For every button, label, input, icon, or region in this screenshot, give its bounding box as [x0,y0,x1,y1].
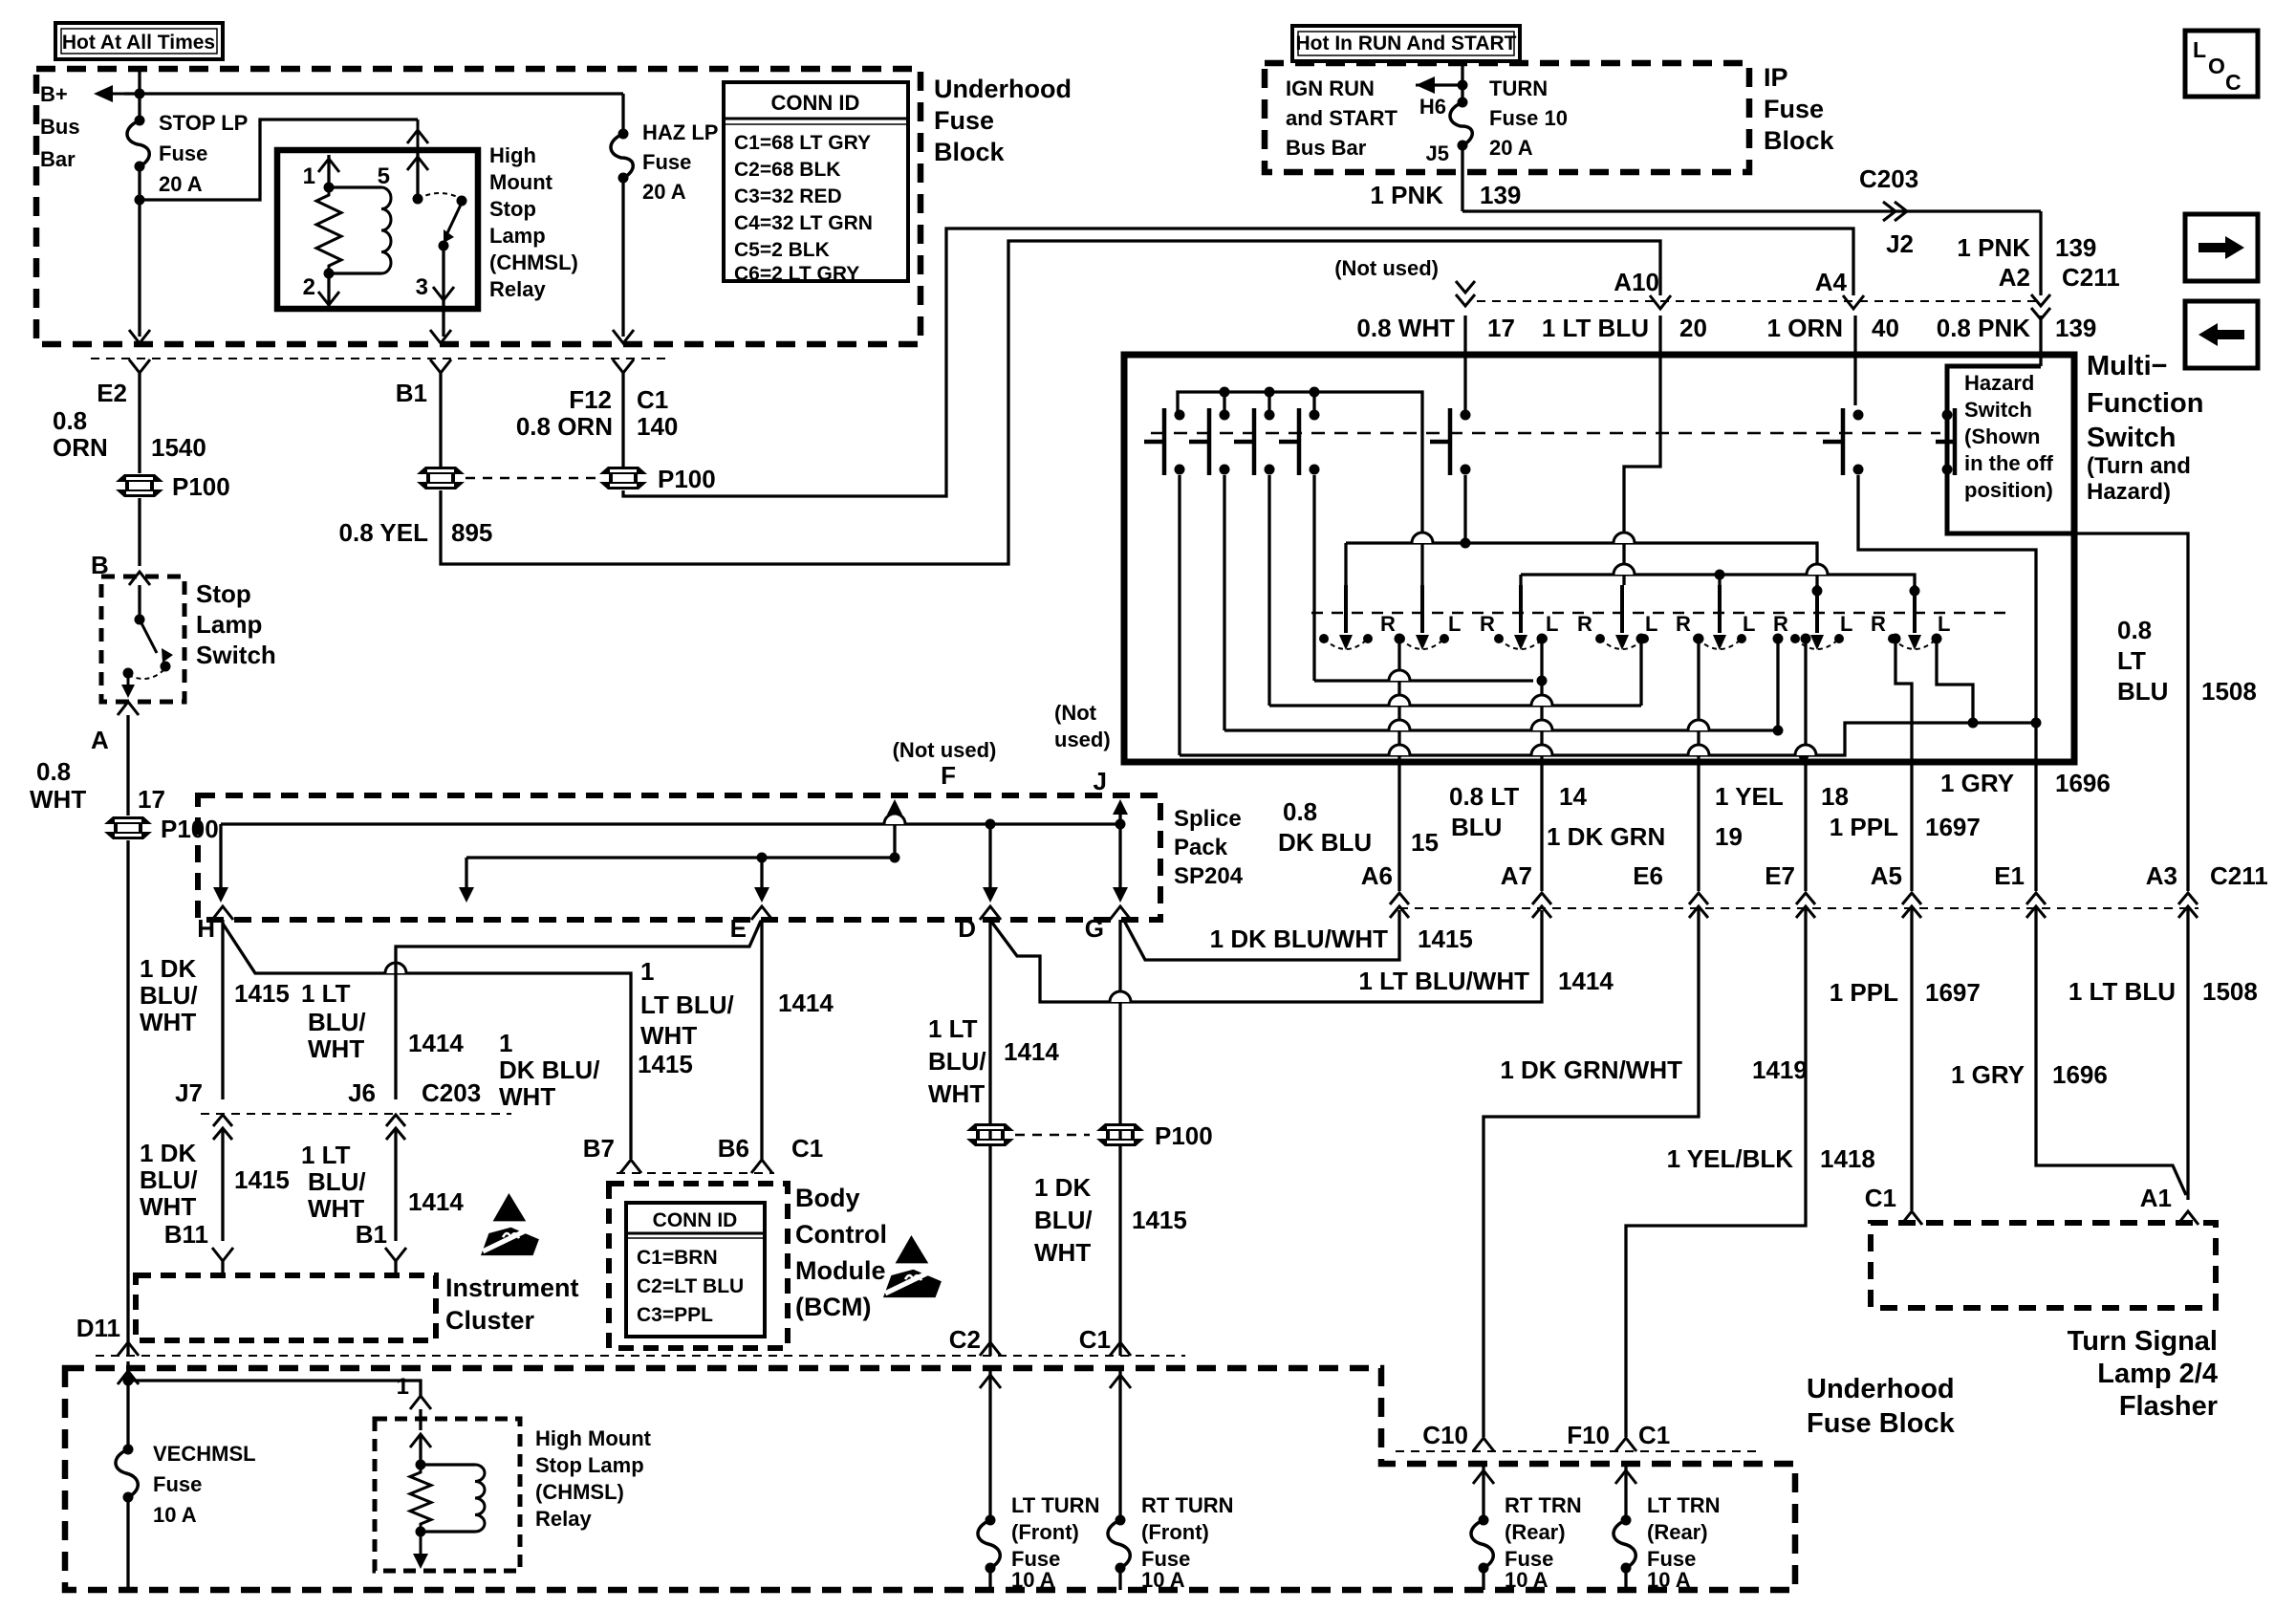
svg-text:0.8: 0.8 [2117,616,2152,644]
contact switch throw [161,662,171,672]
svg-text:0.8 LT: 0.8 LT [1449,782,1519,811]
wire hazard bottom [1945,475,1948,533]
svg-text:1 DK BLU/WHT: 1 DK BLU/WHT [1210,925,1388,953]
label box Hot At All Times [55,23,223,59]
multi-function switch box [1124,355,2074,762]
wire bus B [1521,575,1915,585]
svg-text:Pack: Pack [1174,835,1228,860]
wire RT TURN out [1118,1568,1121,1590]
junction rail1 J [1116,819,1126,830]
wire 1 YEL/BLK E7 [1626,908,1806,1437]
junction w6 feed [1812,586,1823,597]
svg-text:1 PPL: 1 PPL [1830,813,1898,841]
connector arrow E2 top [129,330,150,343]
svg-text:P100: P100 [161,815,219,843]
wire MFS output x1889 [1804,762,1807,891]
svg-text:B6: B6 [718,1134,749,1163]
svg-text:1415: 1415 [234,979,290,1008]
svg-text:C6=2 LT GRY: C6=2 LT GRY [734,263,859,285]
junction relay coil top [324,183,335,193]
svg-text:10 A: 10 A [153,1503,197,1527]
svg-text:position): position) [1964,478,2053,502]
connector J7 [213,1115,232,1140]
wire 0.8 WHT 17 [126,715,129,816]
wire splice F stub [893,805,896,858]
svg-text:Module: Module [795,1256,886,1285]
wire 1 DK BLU/WHT 1415 H [221,920,224,1099]
connector arrow C1 top [613,330,634,343]
hop run790 1777 [1688,745,1709,755]
svg-text:BLU: BLU [1451,813,1502,841]
svg-text:Fuse: Fuse [642,150,691,174]
splice E arrow down [754,887,769,903]
connector C2 [980,1342,1001,1356]
junction relay2 top [416,1460,426,1470]
wire upper contact bus [1178,392,1422,585]
coil relay2 [475,1465,485,1532]
wiper 2 [1396,585,1449,650]
svg-text:895: 895 [451,518,492,547]
svg-text:C1: C1 [1638,1421,1670,1449]
svg-text:1 LT: 1 LT [301,979,351,1008]
terminal arrow pin2 [318,292,339,305]
hop run764 1613 [1531,720,1552,730]
hop run790 1889 [1795,745,1816,755]
contact sw6 (1 ORN) [1823,408,1864,475]
svg-text:1415: 1415 [1132,1206,1187,1234]
wire 1 LT BLU to wiper4 [1624,315,1660,585]
connector D [980,906,1001,920]
table CONN ID BCM [626,1203,765,1337]
svg-text:Switch: Switch [2087,423,2176,453]
svg-text:1 PPL: 1 PPL [1830,978,1898,1007]
svg-text:1 LT BLU: 1 LT BLU [1542,314,1649,342]
junction c5 busA [1461,538,1471,549]
svg-text:1 DK: 1 DK [140,954,196,983]
svg-text:Fuse 10: Fuse 10 [1489,106,1568,130]
svg-text:BLU/: BLU/ [1034,1206,1093,1234]
svg-text:L: L [1743,612,1755,636]
connector E1 [2026,893,2046,918]
junction bus c2 [1220,387,1230,398]
svg-text:1508: 1508 [2202,977,2258,1006]
svg-text:J6: J6 [348,1078,376,1107]
terminal F10 arrow [1615,1470,1636,1484]
connector B7 [620,1160,641,1173]
hazard switch box [1947,366,2074,533]
wire 0.8 YEL routing [441,241,1660,564]
svg-text:L: L [1938,612,1950,636]
svg-text:1508: 1508 [2201,677,2257,706]
svg-text:R: R [1871,612,1886,636]
relay CHMSL 2 dashed box [375,1419,520,1571]
svg-text:L: L [1840,612,1852,636]
svg-text:BLU/: BLU/ [140,981,198,1010]
contact relay pivot [457,196,467,207]
hop run790 1464 [1389,745,1410,755]
wire B11 into cluster [221,1261,224,1275]
svg-text:WHT: WHT [640,1021,697,1050]
wire MFS output x1613 [1540,762,1543,891]
stub c2 [1223,392,1225,415]
svg-text:(Turn and: (Turn and [2087,453,2191,479]
contact sw1 [1144,408,1185,475]
splice J arrow up [1113,799,1128,815]
svg-text:3: 3 [416,274,428,300]
svg-text:C5=2 BLK: C5=2 BLK [734,239,830,261]
wire MFS output x2130 [2034,762,2037,891]
esd symbol cluster [481,1193,541,1255]
svg-text:0.8 PNK: 0.8 PNK [1937,314,2030,342]
relay2 bottom arrow [420,1532,422,1556]
svg-text:17: 17 [138,785,165,814]
wire 1 PPL to flasher [1910,908,1913,1210]
wire C2 in [988,1342,991,1356]
contact switch B [135,615,145,625]
junction run712 a7 [1537,676,1548,686]
wire STOP LP fuse feed [138,69,141,120]
svg-text:C1=68 LT GRY: C1=68 LT GRY [734,132,871,154]
svg-text:Underhood: Underhood [934,75,1072,103]
wiper 7 [1888,585,1941,650]
svg-text:E: E [730,914,747,943]
relay CHMSL box [277,150,478,309]
svg-text:RT TURN: RT TURN [1141,1493,1234,1517]
svg-text:J5: J5 [1426,141,1449,165]
hop run764 1464 [1389,720,1410,730]
svg-text:1 YEL: 1 YEL [1715,782,1784,811]
junction B+ / stop lp [135,89,145,99]
svg-text:H: H [197,914,215,943]
wire 1 GRY to A1 [2036,908,2186,1195]
svg-text:1: 1 [397,1374,409,1400]
terminal arrow pin1 [318,159,339,172]
wire terminal 1860 drop [1776,639,1779,730]
wire w7 staircase [1937,639,1973,723]
svg-text:Control: Control [795,1220,887,1249]
svg-text:VECHMSL: VECHMSL [153,1442,256,1466]
connector B1 [430,359,451,373]
wire vechmsl out [126,1497,129,1590]
fuse TURN Fuse 10 20A [1450,98,1472,151]
svg-text:A3: A3 [2146,861,2177,890]
connector A4 [1843,295,1864,309]
svg-text:A5: A5 [1871,861,1902,890]
contact relay pin5 [413,194,423,205]
svg-text:CONN ID: CONN ID [771,91,860,115]
connector A3 [2178,893,2198,918]
svg-text:E1: E1 [1994,861,2025,890]
svg-text:(Shown: (Shown [1964,424,2040,448]
connector A2/C211 [2031,294,2050,319]
svg-text:20 A: 20 A [159,172,203,196]
svg-text:BLU/: BLU/ [140,1165,198,1194]
wire run y790 [1180,723,2036,755]
svg-text:A4: A4 [1815,268,1848,296]
wire pin5 inside [416,150,419,199]
svg-text:High Mount: High Mount [535,1426,652,1450]
svg-text:1414: 1414 [1004,1037,1059,1066]
wire run y764 [1224,729,1778,731]
wire RT TRN feed [1482,1463,1484,1520]
svg-text:C2=LT BLU: C2=LT BLU [637,1275,744,1297]
svg-text:L: L [2193,37,2206,62]
svg-text:WHT: WHT [308,1194,364,1223]
wire 0.8 PNK into hazard [2039,315,2042,366]
relay contact dashed throw [418,193,462,199]
svg-text:E7: E7 [1765,861,1795,890]
wire busB to wiper3 [1519,575,1522,585]
junction stair 2064 [1968,718,1979,729]
svg-text:B7: B7 [583,1134,615,1163]
wire c5 drop [1463,475,1466,543]
svg-text:DK BLU/: DK BLU/ [499,1055,599,1084]
svg-text:(Not used): (Not used) [1334,256,1439,280]
svg-text:C1: C1 [637,385,668,414]
svg-text:Hazard: Hazard [1964,371,2034,395]
svg-text:5: 5 [378,163,390,189]
turn signal flasher dashed box [1871,1223,2216,1308]
svg-text:R: R [1676,612,1691,636]
connector C10 [1473,1438,1494,1451]
svg-text:C2=68 BLK: C2=68 BLK [734,159,840,181]
svg-text:10 A: 10 A [1505,1568,1549,1592]
grommet P100 A wire [104,816,152,839]
hop DA7 over G [1110,991,1131,1002]
svg-text:17: 17 [1487,314,1515,342]
svg-text:BLU: BLU [2117,677,2168,706]
terminal A7 [1537,634,1548,644]
svg-text:Flasher: Flasher [2119,1391,2218,1422]
svg-text:2: 2 [303,274,315,300]
svg-text:1697: 1697 [1925,813,1981,841]
svg-text:LT: LT [2117,646,2146,675]
svg-text:10 A: 10 A [1011,1568,1055,1592]
svg-text:1 ORN: 1 ORN [1767,314,1843,342]
svg-text:1 LT BLU: 1 LT BLU [2069,977,2176,1006]
svg-text:Mount: Mount [489,170,553,194]
svg-text:1 PNK: 1 PNK [1957,233,2030,262]
wiper 6 [1790,585,1844,650]
underhood fuse block 1 dashed box [36,69,921,344]
connector C1 flasher [1901,1211,1922,1225]
connector row C203 dashed [201,1113,511,1115]
junction rail2 F [890,853,900,863]
svg-text:E2: E2 [97,379,127,407]
svg-text:R: R [1480,612,1495,636]
wire c4 drop [1312,475,1315,681]
connector row MFS inputs [1477,300,2041,302]
wire pin3 stub [442,246,444,309]
svg-text:1414: 1414 [408,1187,464,1216]
svg-text:10 A: 10 A [1647,1568,1691,1592]
svg-text:140: 140 [637,412,678,441]
wire output 0.8 LT BLU [1540,639,1543,762]
svg-text:0.8 YEL: 0.8 YEL [339,518,429,547]
switch blade [140,620,157,653]
svg-text:Bus: Bus [40,115,80,139]
svg-text:Stop: Stop [489,197,536,221]
contact sw4 [1279,408,1320,475]
junction vechmsl branch [123,1376,134,1386]
svg-text:1: 1 [303,163,315,189]
svg-text:0.8: 0.8 [1283,797,1317,826]
svg-text:1419: 1419 [1752,1055,1808,1084]
svg-text:1 YEL/BLK: 1 YEL/BLK [1667,1144,1794,1173]
svg-text:A7: A7 [1501,861,1532,890]
stub c4 [1312,392,1315,415]
wire branch to CHMSL relay pin5 [140,120,418,200]
terminal w1 R [1395,634,1405,644]
svg-text:A1: A1 [2140,1184,2172,1212]
svg-text:1: 1 [499,1029,512,1057]
connector E2 [129,359,150,373]
svg-text:WHT: WHT [499,1082,555,1111]
svg-text:1 LT: 1 LT [301,1141,351,1169]
svg-text:C10: C10 [1422,1421,1468,1449]
svg-text:Lamp: Lamp [489,224,546,248]
wire turn fuse feed [1461,61,1463,102]
grommet link dashes [466,477,598,480]
svg-text:A10: A10 [1614,268,1659,296]
svg-text:CONN ID: CONN ID [653,1209,738,1231]
svg-text:Hazard): Hazard) [2087,479,2171,505]
wire to PPL output [1895,639,1912,762]
wire bus A [1346,543,1817,585]
svg-text:Fuse: Fuse [934,106,994,135]
svg-text:BLU/: BLU/ [928,1047,986,1076]
wire splice rail2 [466,856,895,859]
svg-text:D11: D11 [76,1314,120,1342]
wire run y738 [1269,704,1641,707]
terminal 1717 [1636,634,1647,644]
wire busA to wiper1 [1344,543,1347,585]
wire E to BCM B6 [760,920,763,1161]
terminal 1983 [1891,634,1901,644]
stop lamp switch dashed box [101,577,184,702]
svg-text:C3=PPL: C3=PPL [637,1304,713,1326]
fuse RT TRN 10A [1471,1515,1493,1574]
svg-text:used): used) [1054,728,1111,751]
svg-text:L: L [1448,612,1461,636]
wire J to G [1118,805,1121,887]
wire 0.8 YEL 895 from B1 [439,373,442,467]
connector E7 [1796,893,1815,918]
terminal E7 [1801,634,1811,644]
wire rail1 to H [219,824,222,887]
svg-text:F: F [941,761,956,790]
coil relay [381,187,391,273]
connector A1 flasher [2177,1211,2199,1225]
svg-text:18: 18 [1821,782,1849,811]
svg-text:WHT: WHT [30,785,86,814]
wire 0.8 ORN 1540 [138,373,141,473]
svg-text:B1: B1 [396,379,427,407]
svg-text:1 PNK: 1 PNK [1370,181,1443,209]
svg-text:Stop: Stop [196,579,251,608]
svg-text:1 GRY: 1 GRY [1940,769,2014,797]
resistor relay2 [410,1465,431,1532]
terminal relay2 pin1 [410,1396,431,1409]
svg-text:139: 139 [1480,181,1521,209]
svg-text:1: 1 [640,957,654,986]
contact relay pin3 [439,241,449,251]
underhood fuse block 2 dashed outline [65,1368,1795,1590]
svg-text:Turn Signal: Turn Signal [2068,1326,2218,1357]
left arrow box [2185,301,2258,368]
wire relay2 top link [421,1463,475,1466]
wire B1 into cluster [394,1261,397,1275]
svg-text:A: A [91,726,109,754]
svg-text:Function: Function [2087,388,2203,419]
wire VECHMSL feed [126,1361,129,1449]
hop run738 1464 [1389,695,1410,706]
svg-text:(Rear): (Rear) [1647,1520,1708,1544]
wire E to J6 column [396,921,761,1099]
connector E [751,906,772,920]
wire pin2 stub [327,273,330,309]
svg-text:20 A: 20 A [642,180,686,204]
label box Hot In RUN And START [1292,26,1520,61]
wire terminal 1717 drop [1639,639,1642,706]
wire RT TURN feed [1118,1367,1121,1520]
svg-text:0.8: 0.8 [36,757,71,786]
svg-text:Fuse: Fuse [1764,95,1824,123]
wire run y712 [1314,679,1533,682]
switch dashed throw arc [128,670,163,679]
wire B+ bus to HAZ LP fuse [124,92,623,95]
svg-text:Block: Block [1764,126,1835,155]
svg-text:Hot At All Times: Hot At All Times [62,32,215,54]
svg-text:139: 139 [2055,233,2096,262]
terminal arrow pin5 outside [407,130,428,143]
svg-text:Fuse Block: Fuse Block [1807,1408,1956,1439]
contact hazard [1936,408,1955,475]
esd symbol BCM [883,1235,943,1297]
svg-text:14: 14 [1559,782,1587,811]
svg-text:1 LT: 1 LT [928,1014,978,1043]
splice pack SP204 dashed box [198,795,1160,920]
svg-text:1 DK GRN: 1 DK GRN [1547,822,1665,851]
svg-text:J7: J7 [175,1078,203,1107]
svg-text:(Front): (Front) [1141,1520,1209,1544]
hop busB over w6 feed [1807,564,1828,575]
wire LT TRN out [1624,1568,1627,1590]
connector row bottom-right dashed [1396,1450,1759,1452]
svg-text:J: J [1094,767,1107,795]
wire 0.8 LT BLU 1508 exit [2074,533,2188,891]
wire stop lp fuse out [138,166,141,337]
wire 1 LT BLU/WHT D to A7 [989,910,1542,1002]
contact sw2 [1189,408,1230,475]
terminal 1860 [1773,634,1784,644]
svg-text:1696: 1696 [2055,769,2111,797]
svg-text:1414: 1414 [408,1029,464,1057]
wire MFS output x1777 [1697,762,1700,891]
connector C1 bottom a [1110,1342,1131,1356]
connector G [1110,906,1131,920]
svg-text:C2: C2 [949,1325,981,1354]
wiper 5 [1693,585,1746,650]
terminal 2026 [1932,634,1942,644]
wiper 4 [1595,585,1649,650]
grommet P100 D wire [966,1123,1014,1146]
terminal arrow pin3 [433,287,454,300]
svg-text:Splice: Splice [1174,806,1242,832]
svg-text:1 DK: 1 DK [140,1139,196,1167]
wire 1 PNK 139 to C203 [1462,209,2041,212]
splice rail2 arrow down [459,887,474,903]
